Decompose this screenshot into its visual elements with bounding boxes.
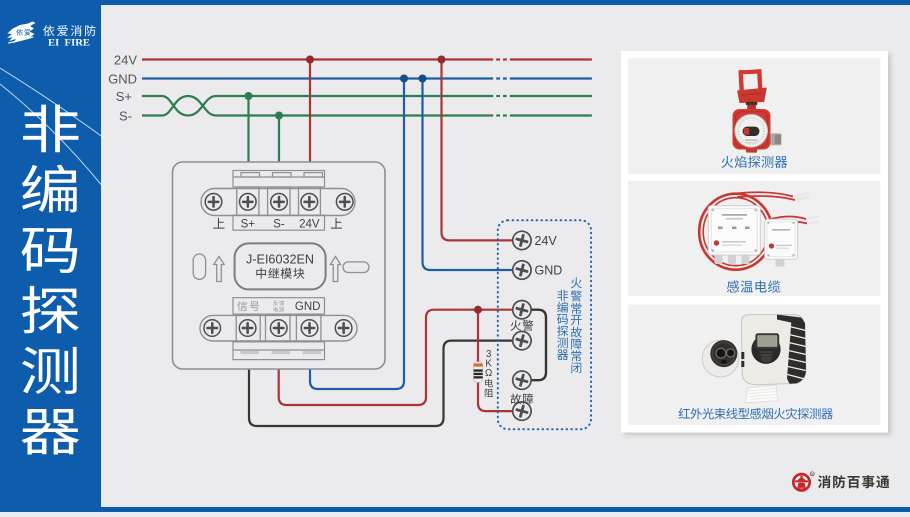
module top screw 24V [301,194,318,211]
flame detector image [733,69,782,152]
label 红外光束线型感烟火灾探测器 [679,408,833,420]
label 上 left [213,218,224,229]
node 24V tap detector [438,56,446,64]
module top screw R [336,194,353,211]
label 上 right [331,218,342,229]
logo text 依爱 cutout [16,29,30,36]
label 火警 [511,320,534,331]
jumper 火警 loop [530,310,546,381]
module bottom screw L [204,320,221,337]
svg-text:S+: S+ [116,89,132,104]
wire module GND up to bus [310,79,404,390]
module bottom label strip [233,298,325,314]
svg-text:S+: S+ [241,219,256,231]
beam smoke detector image [702,315,806,403]
sidebar title 非编码探测器 [21,105,79,455]
footer logo 消防百事通 [793,472,814,491]
product card 3 bg [628,305,881,425]
logo wordmark 依爱消防 [43,25,95,36]
svg-text:EI FIRE: EI FIRE [48,39,90,49]
wire 信号 black to detector [249,341,513,426]
svg-text:J-EI6032EN: J-EI6032EN [246,253,314,267]
module bottom terminal squares [236,315,321,342]
label 故障 [510,393,533,404]
module top screw S- [271,194,288,211]
svg-text:S-: S- [273,219,285,231]
node GND tap detector [419,75,427,83]
module bottom terminal pill [200,315,357,341]
note 火警常开 故障常闭 [571,277,582,325]
node S+ tap [245,92,253,100]
detector screw 故障C [511,369,534,392]
svg-text:GND: GND [108,71,137,86]
node GND tap module [400,75,408,83]
svg-text:S-: S- [119,108,132,123]
wire S- bus with twist [142,96,493,116]
EI FIRE logo bird [7,20,37,44]
svg-text:24V: 24V [299,219,320,231]
note 非编码探测器 [557,290,568,360]
module bottom screw 反馈电源 [270,320,287,337]
svg-text:24V: 24V [535,234,558,248]
module bottom screw 信号 [239,320,256,337]
module slot pill right [343,262,369,273]
resistor R1 3KΩ body [474,362,483,383]
top blue strip [0,0,910,5]
detector screw 故障D [511,400,534,423]
detector screw 24V [511,229,534,252]
module top terminal squares [237,187,321,215]
module top connector strip [233,171,325,188]
module arrow right [330,257,340,282]
module name plate J-EI6032EN [235,243,326,289]
wire resistor branch to 故障 [478,310,513,411]
detector screw 火警B [511,329,534,352]
module top terminal pill [201,189,355,216]
label 火焰探测器 [721,156,787,168]
svg-text:GND: GND [535,263,563,277]
module top screw L [205,194,222,211]
product card 1 bg [628,58,881,174]
sidebar decorative arcs [0,68,104,188]
node S- tap [275,112,283,120]
heat sensing cable image [699,192,819,269]
svg-text:24V: 24V [114,52,137,67]
bottom blue strip [0,507,910,512]
module name 中继模块 [256,268,304,279]
product panel [621,51,888,433]
wire S- drop to module [278,116,280,172]
wire GND bus [142,77,592,79]
wire 反馈电源 red to detector 火警 [279,310,513,405]
module bottom connector strip [233,342,325,360]
wire 24V bus to detector 24V [442,60,514,241]
wire GND bus to detector GND [423,79,514,271]
detector screw GND [511,259,534,282]
label 反馈电源 [273,301,284,306]
product card 2 bg [628,181,881,296]
svg-text:GND: GND [295,301,321,313]
label 信号 [237,301,259,311]
svg-text:Ω: Ω [485,368,492,379]
label 感温电缆 [727,280,780,292]
wire 24V bus [142,58,592,60]
left blue sidebar [0,0,101,512]
node resistor junction [474,306,482,314]
wire 24V drop to module [309,60,311,172]
detector screw 火警A [511,298,534,321]
module top screw S+ [240,194,257,211]
node 24V tap [306,56,314,64]
module top label strip [233,215,325,230]
module bottom screw GND [301,320,318,337]
module arrow left [214,257,224,282]
relay module U1 outer case [173,162,386,369]
wire S+ bus with twist [142,96,493,116]
wire S+ drop to module [247,96,249,171]
module bottom screw R [335,320,352,337]
detector dashed box [498,220,591,429]
module slot pill left [193,254,205,279]
